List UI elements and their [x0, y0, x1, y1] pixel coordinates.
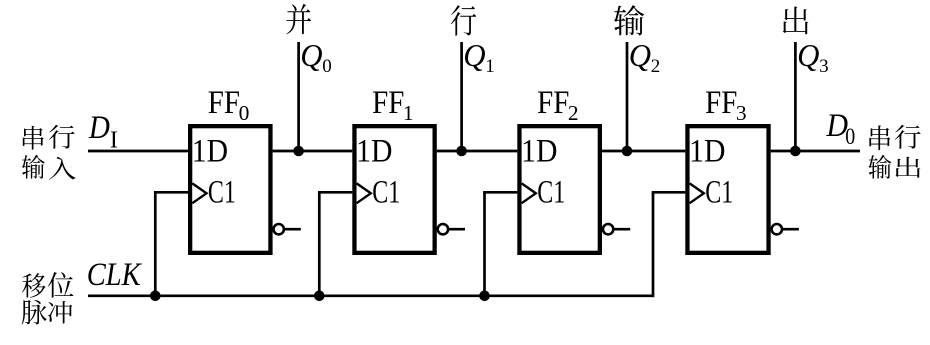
svg-text:CLK: CLK	[87, 257, 143, 293]
wire inverted output stub of FF1	[448, 228, 465, 231]
char 出	[895, 157, 920, 178]
char 位	[48, 272, 74, 298]
svg-text:2: 2	[651, 56, 661, 77]
svg-text:I: I	[110, 127, 118, 153]
inverted output bubble of FF1	[438, 224, 448, 234]
wire inverted output stub of FF3	[782, 228, 799, 231]
inverted output bubble of FF3	[772, 224, 782, 234]
svg-text:0: 0	[322, 56, 332, 77]
svg-text:1D: 1D	[689, 134, 725, 170]
char 行	[49, 125, 75, 149]
node Q2 junction	[622, 146, 633, 157]
wire Q2 output riser	[626, 42, 629, 151]
wire inverted output stub of FF2	[613, 228, 630, 231]
wire CLK stub to FF3 C1	[652, 191, 686, 194]
wire CLK stub to FF2 C1	[483, 191, 517, 194]
wire Q1 output riser	[460, 42, 463, 151]
char 输	[22, 155, 45, 179]
clock triangle of FF0	[192, 183, 206, 203]
char 行	[895, 125, 921, 149]
svg-text:2: 2	[568, 101, 579, 125]
node CLK junction 3	[479, 291, 490, 302]
char 冲	[48, 301, 73, 323]
char 并	[286, 4, 311, 34]
wire Q3 output riser	[794, 42, 797, 151]
wire CLK riser to FF2	[483, 192, 486, 295]
char 脉	[22, 300, 47, 325]
wire CLK stub to FF1 C1	[318, 191, 352, 194]
clock triangle of FF2	[522, 183, 536, 203]
svg-text:Q: Q	[797, 37, 819, 73]
label 移位脉冲 (shift pulse)	[22, 272, 74, 324]
node CLK junction 2	[314, 291, 325, 302]
label 串行输出 (serial output)	[868, 125, 920, 179]
inverted output bubble of FF0	[274, 224, 284, 234]
svg-text:0: 0	[845, 123, 855, 149]
wire FF3 Q to serial output D_O	[771, 150, 860, 153]
clock triangle of FF1	[357, 183, 371, 203]
svg-text:FF: FF	[372, 85, 404, 121]
wire CLK bus	[88, 294, 653, 297]
wire serial input D_I to FF0	[88, 150, 188, 153]
node Q1 junction	[456, 146, 467, 157]
node CLK junction 1	[150, 291, 161, 302]
svg-text:C1: C1	[537, 175, 565, 211]
svg-text:0: 0	[239, 101, 250, 125]
flip-flop FF1 body	[354, 126, 434, 253]
wire CLK riser to FF3	[652, 192, 655, 297]
char 输	[614, 5, 644, 35]
svg-text:1: 1	[403, 101, 414, 125]
flip-flop FF0 body	[190, 126, 270, 253]
svg-text:3: 3	[819, 56, 829, 77]
char 行	[451, 5, 476, 36]
svg-text:FF: FF	[537, 85, 569, 121]
wire Q0 output riser	[297, 42, 300, 151]
svg-text:FF: FF	[208, 85, 240, 121]
svg-text:Q: Q	[629, 37, 651, 73]
label 串行输入 (serial input)	[22, 125, 76, 180]
wire inverted output stub of FF0	[284, 228, 301, 231]
wire CLK riser to FF0	[154, 192, 157, 295]
svg-text:Q: Q	[300, 37, 322, 73]
inverted output bubble of FF2	[603, 224, 613, 234]
wire FF0 Q to FF1 D	[273, 150, 353, 153]
wire FF2 Q to FF3 D	[602, 150, 685, 153]
flip-flop FF3 body	[687, 126, 768, 253]
char 串	[869, 125, 890, 150]
svg-text:1: 1	[485, 56, 495, 77]
wire CLK riser to FF1	[318, 192, 321, 295]
flip-flop FF2 body	[519, 126, 599, 253]
char 输	[868, 155, 891, 179]
svg-text:1D: 1D	[521, 134, 557, 170]
wire FF1 Q to FF2 D	[437, 150, 518, 153]
svg-text:Q: Q	[463, 37, 485, 73]
svg-text:C1: C1	[372, 175, 400, 211]
char 串	[23, 126, 44, 150]
svg-text:FF: FF	[705, 85, 737, 121]
wire CLK stub to FF0 C1	[154, 191, 188, 194]
svg-text:C1: C1	[705, 175, 733, 211]
node Q3 junction	[790, 146, 801, 157]
char 入	[49, 157, 76, 180]
svg-text:1D: 1D	[192, 134, 228, 170]
svg-text:C1: C1	[208, 175, 236, 211]
svg-text:D: D	[88, 110, 110, 146]
node Q0 junction	[293, 146, 304, 157]
char 移	[22, 273, 46, 298]
svg-text:1D: 1D	[356, 134, 392, 170]
char 出	[783, 6, 808, 34]
clock triangle of FF3	[690, 183, 704, 203]
svg-text:3: 3	[736, 101, 747, 125]
